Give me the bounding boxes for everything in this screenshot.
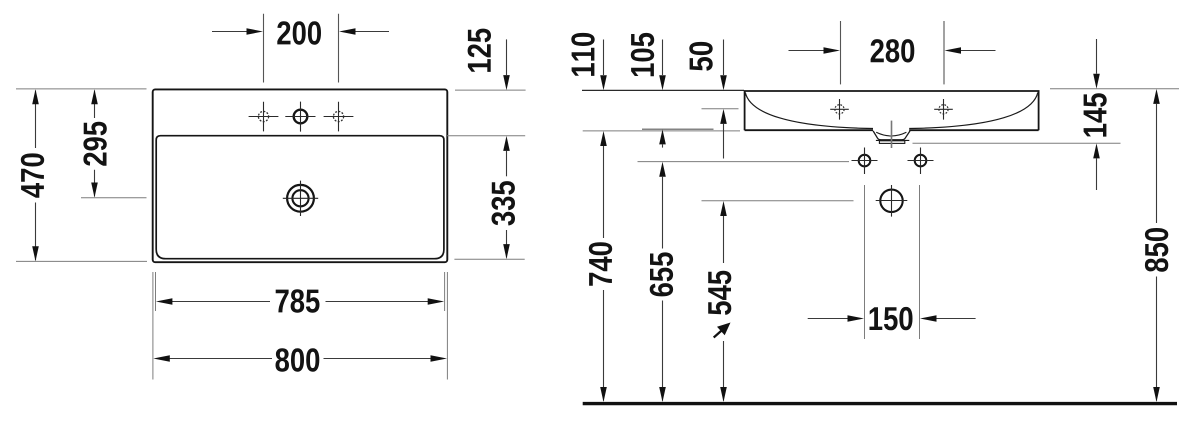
dim 150 left tail and arrow <box>808 318 849 320</box>
545-level line <box>702 200 854 202</box>
dim 740 shared arrow at 110-level and shaft <box>600 131 607 146</box>
dim 125 label <box>468 29 491 72</box>
dim 110 label <box>571 33 594 76</box>
dim 200 left tail and arrow <box>212 31 248 33</box>
bottom-left extension line <box>16 260 147 262</box>
dim 545 arrow at 545-level and shaft to floor <box>720 201 727 216</box>
tap hole right (dashed) <box>333 111 343 121</box>
dim 335 lower shaft and arrow <box>506 230 508 258</box>
waste hole <box>880 190 902 212</box>
dim 280 right tail and arrow <box>960 50 996 52</box>
dim 740 label <box>589 242 612 286</box>
drain fitting side view <box>873 131 910 140</box>
side tap hole left (dashed) <box>835 105 844 114</box>
105-level line <box>642 128 714 130</box>
800 extension line right <box>446 272 448 380</box>
basin side body outline <box>745 91 1039 130</box>
dim 295 label <box>83 122 106 166</box>
fixing hole left crosshair <box>852 148 878 175</box>
basin inner bowl rounded rect <box>156 136 444 259</box>
floor line <box>583 402 1177 405</box>
drain outer circle <box>287 185 314 212</box>
fixing hole right <box>915 155 927 167</box>
dim 150 right tail and arrow <box>935 318 975 320</box>
dim 200 label <box>277 21 321 44</box>
dim 545 label <box>708 271 731 315</box>
side tap hole left crosshair <box>830 99 849 120</box>
dim 50 lower arrow at 50-level <box>720 109 727 124</box>
fixing hole left <box>859 155 871 167</box>
dim 655 label <box>650 252 673 296</box>
dim 785 line <box>171 301 430 303</box>
top surface line <box>582 89 744 91</box>
drain centerline <box>891 121 893 148</box>
dim 335 top arrow below middle line <box>503 136 510 151</box>
dim 850 label <box>1145 228 1168 272</box>
50-level line <box>702 108 739 110</box>
280 extension line left <box>840 21 842 84</box>
800 extension line left <box>152 272 154 380</box>
150 extension line left <box>864 185 866 339</box>
335 bottom extension line <box>454 258 524 260</box>
125 top extension line <box>455 89 526 91</box>
tap hole left (dashed) <box>258 111 268 121</box>
dim 800 line <box>168 358 432 360</box>
side tap hole right crosshair <box>934 99 953 120</box>
dim 470 line <box>35 91 37 261</box>
bowl interior curve right <box>909 93 1038 129</box>
dim 800 label <box>276 348 320 371</box>
drain inner circle <box>292 190 308 206</box>
dim 280 left tail and arrow <box>789 50 825 52</box>
dim 280 label <box>871 39 915 62</box>
dim 200 extension lines <box>264 14 339 83</box>
dim 145 shaft above and arrow <box>1096 39 1098 74</box>
280 extension line right <box>943 21 945 84</box>
dim 50 shaft above and arrow <box>723 40 725 76</box>
145-level line <box>913 142 1121 144</box>
dim 145 lower arrow <box>1093 143 1100 158</box>
dim 335 label <box>492 181 516 225</box>
side tap hole right (dashed) <box>939 105 948 114</box>
dim 295 line <box>94 91 96 197</box>
dim 470 label <box>21 153 44 197</box>
basin outer rect <box>153 89 448 262</box>
dim 655 arrow at 655-level and shaft to floor <box>659 162 666 177</box>
110-level line <box>583 130 740 132</box>
785 extension line left <box>155 272 157 311</box>
drain-level extension line <box>81 197 147 199</box>
dim 105 label <box>631 33 654 76</box>
dim 110 shaft above and arrow <box>603 40 605 76</box>
waste hole crosshair <box>876 185 908 217</box>
dim 50 label <box>689 42 712 71</box>
150 extension line right <box>919 185 921 339</box>
dim 145 label <box>1084 93 1107 136</box>
dim 105 shaft above and arrow <box>662 40 664 76</box>
655-level line <box>638 161 850 163</box>
tap hole left crosshair <box>249 102 279 132</box>
dim 150 label <box>870 307 913 330</box>
dim 200 right tail and arrow <box>354 31 389 33</box>
tap hole right crosshair <box>324 102 354 132</box>
top-left extension line <box>16 88 147 90</box>
dim 105 lower arrow at 105-level <box>659 129 666 144</box>
785 extension line right <box>444 272 446 311</box>
dim 125 shaft above and arrow <box>506 39 508 75</box>
125/335 middle extension line <box>447 135 525 137</box>
top-level right extension line <box>1050 88 1179 90</box>
fixing hole right crosshair <box>908 148 934 175</box>
drain flange <box>876 139 909 141</box>
dim 785 label <box>276 289 320 312</box>
drain crosshair <box>283 181 318 216</box>
tap hole middle crosshair <box>285 102 315 132</box>
dim 545 slant arrow marker <box>714 328 725 338</box>
tap hole middle (solid) <box>294 110 308 124</box>
dim 850 top arrow and shaft <box>1153 89 1160 104</box>
bowl interior curve left <box>745 93 873 129</box>
